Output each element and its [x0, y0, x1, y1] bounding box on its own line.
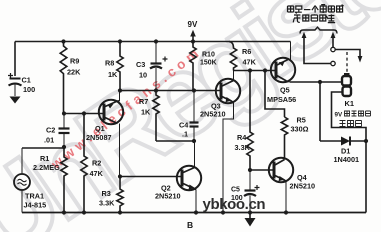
svg-text:ybkoo.cn: ybkoo.cn	[203, 196, 266, 213]
junction D1 cathode node	[364, 139, 368, 143]
Q4 emitter arrow	[279, 176, 286, 181]
svg-text:R2: R2	[92, 159, 101, 168]
svg-text:C3: C3	[136, 60, 145, 69]
wire K1 coil return	[332, 92, 367, 141]
wire R5 branch from Q5 base node	[265, 71, 285, 118]
svg-text:R1: R1	[40, 154, 49, 163]
svg-text:UnRegiste: UnRegiste	[0, 0, 381, 232]
svg-text:.01: .01	[44, 136, 54, 145]
svg-text:R5: R5	[297, 116, 306, 125]
svg-text:J4-815: J4-815	[24, 201, 47, 210]
ground below C1	[10, 97, 21, 104]
svg-text:R9: R9	[70, 57, 79, 66]
svg-text:K1: K1	[345, 99, 355, 108]
svg-text:330Ω: 330Ω	[291, 125, 309, 134]
junction Q5 collector / D1 anode node	[318, 80, 322, 84]
resistor R5	[281, 117, 287, 160]
junction R4 / C5 / Q4 base node	[248, 168, 252, 172]
svg-text:2N5210: 2N5210	[200, 110, 226, 119]
wire Q5 collector to relay	[290, 81, 342, 83]
wire lower contact to left arrow	[304, 38, 331, 64]
relay coil K1	[342, 73, 351, 96]
resistor R2	[81, 114, 87, 213]
diode D1	[320, 137, 366, 146]
Q2 emitter arrow	[189, 185, 196, 190]
svg-text:150K: 150K	[200, 60, 217, 67]
svg-text:9V: 9V	[188, 20, 198, 29]
relay mechanical dashed link	[346, 52, 348, 72]
C1 plus sign	[8, 73, 13, 78]
arrow down right	[358, 56, 363, 63]
svg-text:R10: R10	[202, 52, 215, 59]
junctions on ground rail	[62, 210, 288, 214]
svg-text:3.3K: 3.3K	[99, 199, 115, 208]
svg-text:R4: R4	[237, 133, 247, 142]
9V arrowhead	[190, 30, 196, 37]
svg-text:C2: C2	[46, 126, 55, 135]
Q5 emitter arrow	[279, 62, 285, 67]
junctions on Q1 emitter / Q3 base net	[118, 88, 196, 92]
svg-text:TRA1: TRA1	[25, 192, 44, 201]
junctions on Q3 collector / Q5 base net	[248, 68, 267, 72]
wire Q1 base from C2 node	[64, 113, 104, 115]
chinese annotation line 1	[288, 5, 344, 14]
junctions on Q1 base net	[62, 111, 86, 115]
capacitor C1	[9, 79, 22, 97]
annotation brace	[300, 27, 337, 33]
relay contact lower	[331, 61, 335, 65]
resistor R8	[117, 42, 123, 91]
wire D1 branch down	[319, 82, 321, 141]
arrow up right	[331, 32, 336, 38]
ground below C5	[249, 213, 251, 219]
svg-text:9V: 9V	[335, 112, 344, 119]
transducer TRA1	[14, 148, 30, 213]
svg-text:B: B	[187, 220, 193, 230]
svg-text:1K: 1K	[141, 108, 151, 117]
junction R7 / C4 / Q2 collector node	[192, 139, 196, 143]
resistor R3	[117, 177, 123, 213]
Q3 emitter arrow	[226, 97, 233, 102]
svg-text:R8: R8	[105, 59, 114, 68]
capacitor C3	[150, 42, 162, 91]
junction TRA1 / R1 / C2 node	[62, 145, 66, 149]
svg-text:.1: .1	[182, 130, 188, 139]
wire R7 bottom to C4 node	[156, 140, 194, 142]
C5 plus sign	[255, 185, 260, 190]
relay label coil line	[340, 121, 362, 127]
svg-text:1K: 1K	[108, 70, 118, 79]
wire top 9V rail	[15, 41, 291, 43]
svg-text:100: 100	[23, 85, 35, 94]
svg-text:1N4001: 1N4001	[334, 155, 360, 164]
svg-text:10: 10	[139, 71, 147, 80]
svg-text:3.3K: 3.3K	[235, 143, 251, 152]
capacitor C2	[59, 114, 70, 148]
Q1 emitter arrow	[108, 104, 114, 109]
resistor R6 with hook to rail	[229, 42, 237, 71]
wire upper contact up arrow	[332, 38, 334, 47]
wire upper contact to right arrow	[335, 50, 360, 57]
resistor R1	[61, 147, 67, 213]
wire bottom ground rail	[22, 212, 366, 214]
resistor R9	[60, 42, 67, 114]
transistor Q4	[269, 158, 293, 213]
wire Q3 collector to Q5 base	[234, 70, 277, 72]
svg-text:C5: C5	[231, 187, 240, 194]
svg-text:C1: C1	[22, 76, 31, 85]
svg-text:47K: 47K	[243, 58, 257, 67]
svg-text:2N5087: 2N5087	[86, 133, 112, 142]
transistor Q3	[216, 71, 240, 213]
wire TRA1 to R1 node	[22, 147, 64, 149]
svg-text:C4: C4	[179, 121, 189, 130]
svg-text:22K: 22K	[67, 68, 81, 77]
arrow up left	[302, 32, 307, 38]
resistor R7	[153, 91, 159, 142]
wire Q2 base	[120, 176, 182, 178]
capacitor C5	[244, 170, 256, 213]
svg-text:Q5: Q5	[280, 86, 290, 95]
svg-text:2N5210: 2N5210	[290, 182, 316, 191]
junctions on 9V top rail	[61, 39, 195, 43]
svg-text:R3: R3	[102, 189, 111, 198]
chinese annotation line 2	[293, 14, 335, 22]
relay contact upper	[331, 47, 335, 51]
svg-text:R6: R6	[242, 47, 251, 56]
resistor R10	[190, 42, 196, 91]
wire left drop to C1	[14, 42, 16, 77]
C3 plus sign	[163, 57, 168, 62]
junction Q1 collector / Q2 base node	[118, 174, 122, 178]
resistor R4	[247, 71, 253, 171]
svg-text:MPSA56: MPSA56	[267, 95, 296, 104]
wire Q1 emitter node to Q3 base	[120, 90, 221, 92]
transistor Q2	[177, 141, 201, 213]
transistor Q5	[271, 42, 295, 83]
9V supply arrow	[192, 37, 194, 42]
svg-text:2N5210: 2N5210	[155, 192, 181, 201]
svg-text:2.2MEG: 2.2MEG	[33, 163, 60, 172]
wire right rail down to bottom	[365, 141, 367, 213]
capacitor C4	[190, 91, 199, 142]
wire Q4 base	[250, 169, 274, 171]
svg-text:Q1: Q1	[95, 124, 105, 133]
transistor Q1	[99, 91, 123, 177]
svg-text:47K: 47K	[90, 169, 104, 178]
svg-text:R7: R7	[139, 97, 148, 106]
